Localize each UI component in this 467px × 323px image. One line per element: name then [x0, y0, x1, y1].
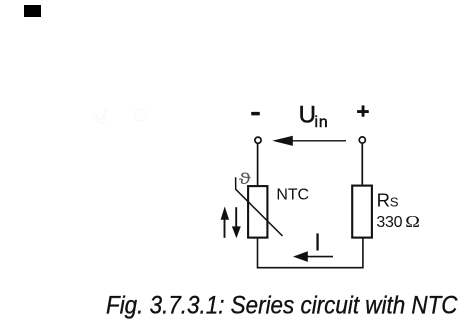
terminal node plus (right) — [359, 137, 365, 143]
NTC diagonal characteristic line with top foot — [236, 177, 283, 236]
resistor Rs body — [352, 186, 372, 238]
svg-text:S: S — [390, 195, 399, 210]
bottom wire loop NTC to Rs — [258, 238, 363, 267]
faint page bleed-through mark right — [134, 109, 146, 121]
arrow up (resistance change indicator) — [221, 207, 230, 238]
svg-text:Ω: Ω — [405, 212, 420, 230]
svg-text:in: in — [315, 114, 329, 131]
svg-text:330: 330 — [376, 214, 402, 231]
svg-text:U: U — [299, 101, 316, 128]
label 330 Ohm value — [376, 212, 420, 231]
label Uin — [299, 101, 329, 130]
thermistor NTC body — [248, 186, 267, 238]
arrow down (temperature change indicator) — [232, 207, 241, 238]
svg-text:Fig. 3.7.3.1: Series circuit w: Fig. 3.7.3.1: Series circuit with NTC — [106, 291, 458, 319]
label I current — [316, 233, 318, 250]
svg-text:R: R — [377, 190, 390, 211]
svg-text:ϑ: ϑ — [239, 171, 252, 188]
top arrow for Uin direction — [272, 136, 346, 146]
faint page bleed-through mark left — [93, 108, 107, 123]
label Rs — [377, 190, 399, 211]
label minus terminal polarity — [251, 112, 260, 116]
svg-text:NTC: NTC — [276, 187, 309, 204]
terminal node minus (left) — [255, 137, 261, 143]
wire right terminal to Rs — [361, 144, 363, 185]
current arrow I direction — [293, 251, 333, 262]
wire left terminal to NTC — [257, 144, 259, 186]
label plus terminal polarity — [357, 105, 369, 116]
page corner black square — [24, 5, 41, 17]
